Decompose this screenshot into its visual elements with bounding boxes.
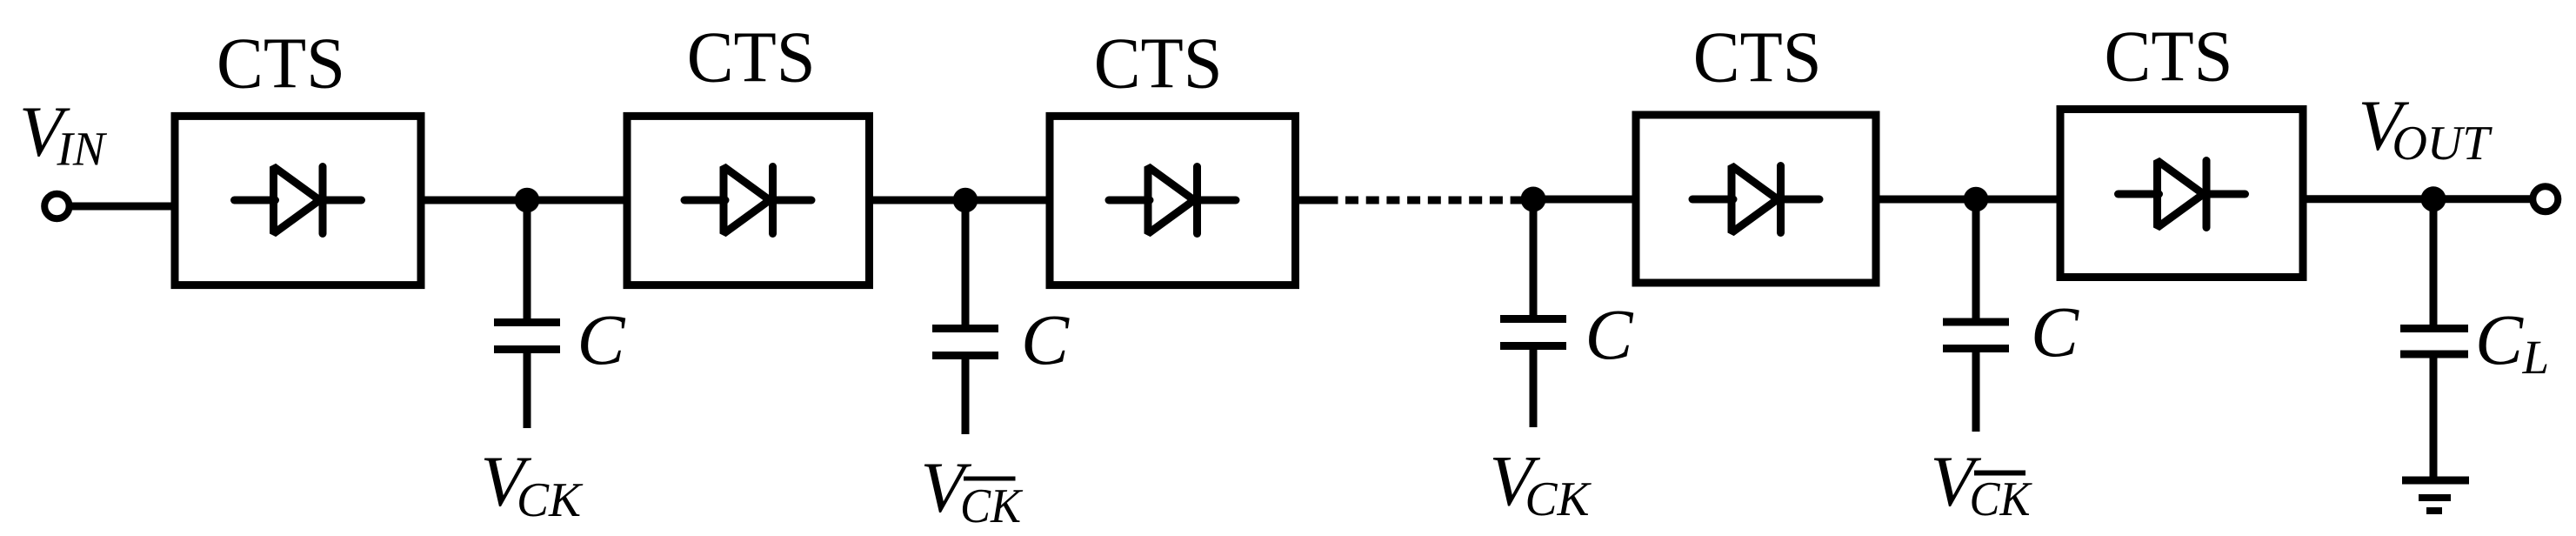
svg-text:CK: CK bbox=[1525, 472, 1592, 526]
svg-text:CK: CK bbox=[960, 479, 1023, 533]
svg-text:C: C bbox=[1585, 294, 1635, 374]
svg-text:C: C bbox=[2031, 291, 2080, 372]
svg-text:C: C bbox=[1021, 299, 1071, 379]
svg-text:C: C bbox=[2475, 299, 2525, 379]
svg-text:CTS: CTS bbox=[1693, 17, 1822, 98]
svg-text:CK: CK bbox=[1970, 472, 2032, 526]
svg-text:CTS: CTS bbox=[1094, 23, 1223, 104]
svg-text:L: L bbox=[2522, 331, 2550, 384]
svg-text:CTS: CTS bbox=[217, 23, 345, 104]
svg-text:CTS: CTS bbox=[687, 17, 816, 98]
svg-text:IN: IN bbox=[57, 123, 108, 176]
svg-text:CK: CK bbox=[517, 473, 584, 527]
svg-text:C: C bbox=[577, 299, 627, 379]
svg-text:CTS: CTS bbox=[2105, 16, 2233, 97]
svg-text:OUT: OUT bbox=[2392, 117, 2493, 171]
